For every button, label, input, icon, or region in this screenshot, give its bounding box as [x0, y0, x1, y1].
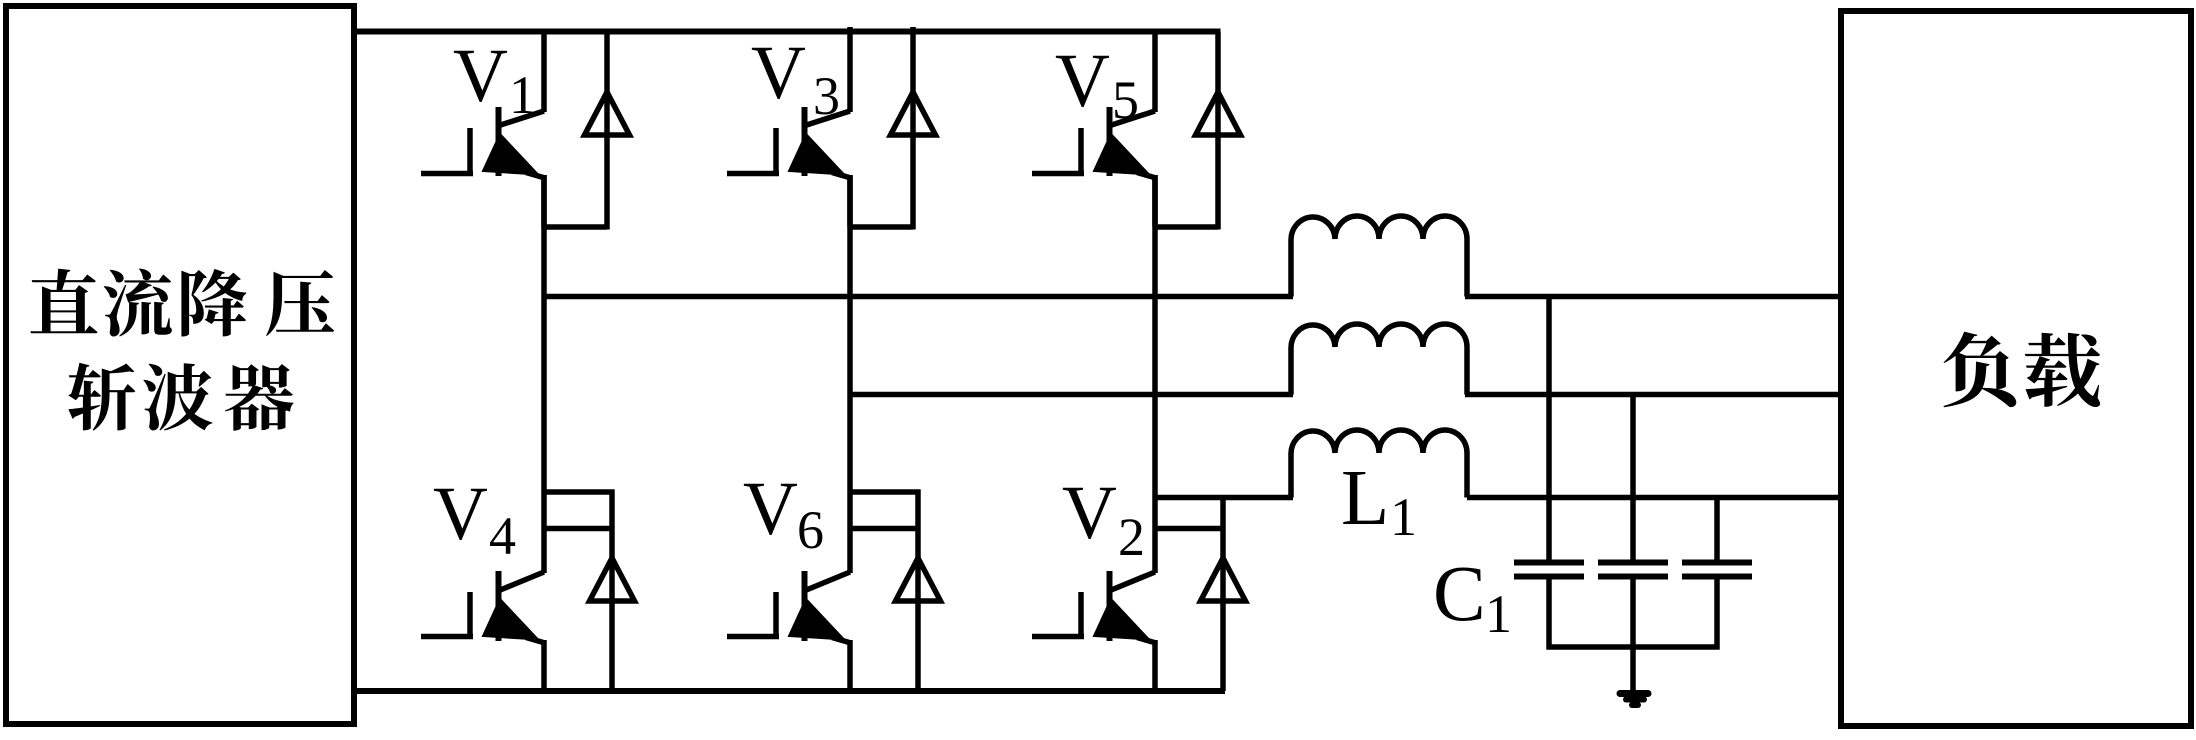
wire: phase A from filter to load: [1465, 294, 1841, 300]
wire: DC- bottom rail: [354, 688, 1225, 694]
capacitor Cb (filter cap, part of C1): [1598, 395, 1668, 650]
svg-text:5: 5: [1112, 70, 1139, 130]
svg-text:1: 1: [1390, 487, 1417, 547]
inductor Lc (phase filter coil, part of L1): [1291, 430, 1467, 498]
svg-text:V: V: [433, 472, 488, 556]
transistor V2 (IGBT, bottom row): [1032, 175, 1156, 691]
svg-text:V: V: [1055, 39, 1110, 123]
label 斩波器 (line 2): [68, 363, 293, 431]
svg-text:V: V: [743, 467, 798, 551]
wire: phase A from V1/V4 midpoint to filter: [544, 294, 1293, 300]
svg-text:1: 1: [509, 65, 536, 125]
label 直流降压 (line 1): [30, 269, 334, 337]
wire: ground stem: [1630, 647, 1636, 692]
transistor V4 (IGBT, bottom row): [421, 175, 545, 691]
svg-text:C: C: [1433, 551, 1486, 638]
diode D1 (antiparallel, top row): [544, 32, 630, 230]
transistor V1 (IGBT, top row): [421, 32, 545, 228]
wire: phase B from V3/V6 midpoint to filter: [850, 392, 1293, 398]
svg-text:4: 4: [489, 506, 516, 566]
capacitor Cc (filter cap, part of C1): [1682, 498, 1752, 650]
svg-text:V: V: [1062, 471, 1117, 555]
wire: phase C from V2/V5 midpoint to filter: [1155, 495, 1293, 501]
svg-text:V: V: [453, 34, 508, 118]
transistor V6 (IGBT, bottom row): [727, 175, 851, 691]
diode D2 (antiparallel, bottom row): [1155, 498, 1246, 692]
load block (负载): [1841, 11, 2191, 726]
ground: [1620, 694, 1648, 706]
diode D6 (antiparallel, bottom row): [850, 490, 941, 692]
wire: phase C from filter to load: [1467, 495, 1844, 501]
DC buck chopper block (直流降压斩波器): [6, 6, 354, 724]
wire: capacitor common bus: [1547, 644, 1720, 650]
inductor Lb (phase filter coil, part of L1): [1291, 324, 1467, 395]
svg-text:3: 3: [813, 66, 840, 126]
svg-text:L: L: [1341, 455, 1389, 542]
svg-text:1: 1: [1485, 584, 1512, 644]
svg-text:2: 2: [1118, 507, 1145, 567]
diode D3 (antiparallel, top row): [850, 27, 936, 230]
label 负载: [1943, 332, 2100, 408]
inductor La (phase filter coil, part of L1): [1291, 216, 1467, 297]
transistor V5 (IGBT, top row): [1032, 32, 1156, 228]
diode D5 (antiparallel, top row): [1155, 32, 1241, 230]
transistor V3 (IGBT, top row): [727, 27, 851, 227]
diode D4 (antiparallel, bottom row): [544, 490, 635, 692]
svg-text:6: 6: [797, 500, 824, 560]
capacitor Ca (filter cap, part of C1): [1514, 297, 1584, 650]
wire: DC+ top rail: [354, 29, 1221, 35]
wire: phase B from filter to load: [1465, 392, 1841, 398]
svg-text:V: V: [751, 31, 806, 115]
